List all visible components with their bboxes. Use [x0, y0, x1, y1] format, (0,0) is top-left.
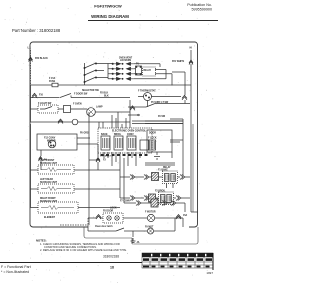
- svg-text:OVEN VENT: OVEN VENT: [119, 57, 133, 59]
- svg-text:DOOR: DOOR: [149, 133, 156, 135]
- svg-text:F7 CONV: F7 CONV: [120, 201, 130, 203]
- svg-text:SURFACE UNIT: SURFACE UNIT: [40, 162, 58, 165]
- svg-text:LEFT FRONT: LEFT FRONT: [40, 160, 55, 162]
- svg-text:ELECTRONIC OVEN CONTROL: ELECTRONIC OVEN CONTROL: [112, 131, 147, 133]
- svg-text:LEFT REAR: LEFT REAR: [40, 178, 53, 181]
- svg-text:NOTES:: NOTES:: [36, 238, 47, 242]
- svg-text:Part Number : 318002188: Part Number : 318002188: [12, 28, 61, 33]
- svg-text:F DOOR SW: F DOOR SW: [74, 94, 88, 96]
- svg-text:2. REPLACE WIRE IF 90 C OR HI: 2. REPLACE WIRE IF 90 C OR HIGHER WITH S…: [40, 248, 127, 252]
- svg-text:LOUVERS: LOUVERS: [120, 60, 132, 62]
- svg-text:FUSE: FUSE: [49, 81, 56, 83]
- svg-text:L1: L1: [28, 46, 32, 50]
- svg-text:P2 BLK: P2 BLK: [100, 92, 109, 94]
- svg-text:N: N: [190, 46, 192, 50]
- svg-text:F LIGHT SW: F LIGHT SW: [38, 103, 52, 105]
- svg-text:ELEMENT: ELEMENT: [44, 217, 56, 219]
- svg-text:F12 CONV: F12 CONV: [44, 138, 56, 140]
- svg-text:BROIL: BROIL: [114, 134, 122, 136]
- svg-text:F5 SURF LT SW: F5 SURF LT SW: [151, 102, 169, 104]
- svg-text:F1 BAKE: F1 BAKE: [158, 169, 168, 172]
- svg-text:F MOTOR: F MOTOR: [145, 212, 156, 214]
- svg-text:1 2 3 4 5 6 7 8: 1 2 3 4 5 6 7 8: [100, 155, 114, 158]
- svg-text:BAKE: BAKE: [101, 133, 108, 136]
- svg-text:BLK: BLK: [104, 96, 109, 98]
- svg-text:RIGHT FRONT: RIGHT FRONT: [40, 198, 56, 200]
- svg-text:F OVEN: F OVEN: [73, 103, 82, 105]
- svg-text:LOCK: LOCK: [110, 208, 117, 210]
- svg-text:P21 WHITE: P21 WHITE: [172, 61, 185, 63]
- svg-text:F6 SW: F6 SW: [158, 116, 166, 118]
- svg-text:WIRING DIAGRAM: WIRING DIAGRAM: [91, 14, 129, 19]
- svg-text:SURFACE UNIT: SURFACE UNIT: [40, 200, 58, 203]
- svg-text:15A: 15A: [183, 214, 188, 217]
- svg-text:Oven door latch: Oven door latch: [95, 225, 113, 228]
- svg-text:1997: 1997: [206, 271, 213, 275]
- svg-text:5995599900: 5995599900: [191, 7, 212, 11]
- svg-text:CONV: CONV: [127, 134, 134, 136]
- svg-text:* = Non-Illustrated: * = Non-Illustrated: [1, 270, 29, 274]
- svg-text:F THERMOSTAT: F THERMOSTAT: [138, 90, 156, 93]
- svg-text:F2 BROIL: F2 BROIL: [155, 190, 166, 192]
- svg-text:FGF379WGCW: FGF379WGCW: [94, 4, 122, 9]
- svg-text:JA: JA: [137, 241, 140, 244]
- svg-text:F8 DOOR: F8 DOOR: [103, 211, 114, 213]
- svg-text:P5 ORG: P5 ORG: [80, 133, 89, 135]
- svg-text:F LOCK: F LOCK: [148, 138, 157, 140]
- svg-text:P20 BLACK: P20 BLACK: [35, 57, 48, 60]
- svg-text:F9 MOT: F9 MOT: [145, 227, 154, 229]
- svg-text:LAMP: LAMP: [96, 105, 103, 108]
- svg-text:318002188: 318002188: [103, 255, 119, 259]
- svg-text:SELECTOR SW: SELECTOR SW: [82, 90, 100, 92]
- svg-text:RELAY: RELAY: [163, 166, 171, 169]
- svg-text:RELAY: RELAY: [144, 69, 152, 72]
- svg-text:F 15A: F 15A: [49, 77, 56, 80]
- svg-text:SURFACE UNIT: SURFACE UNIT: [40, 181, 58, 184]
- svg-text:F = Functional Part: F = Functional Part: [1, 265, 31, 269]
- svg-text:18: 18: [110, 266, 114, 270]
- svg-text:MOTOR: MOTOR: [47, 141, 56, 143]
